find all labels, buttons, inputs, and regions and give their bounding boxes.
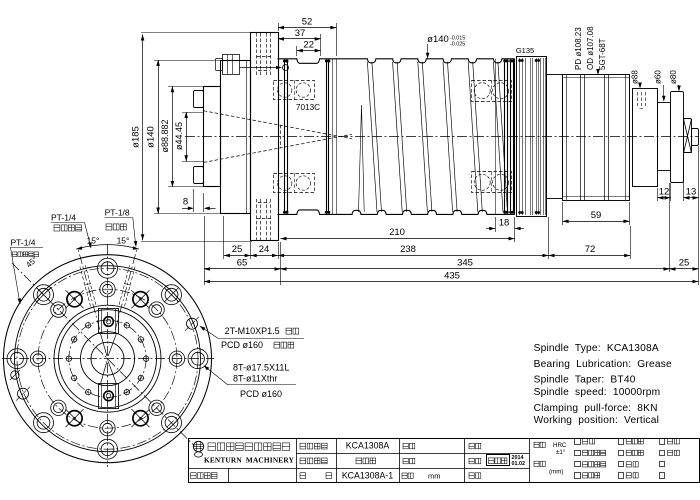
- grease fitting leader: [240, 65, 289, 71]
- cell 零件編號: [191, 473, 218, 479]
- front view 45 deg centerline: [12, 263, 195, 447]
- G135 clamping ring: [517, 57, 547, 217]
- 8T-ø11 through holes: [30, 282, 184, 436]
- svg-text:ø80: ø80: [669, 70, 678, 84]
- front flange outer circle ø185: [4, 255, 212, 463]
- svg-text:PT-1/4: PT-1/4: [11, 237, 36, 247]
- PCD 124 bolt circle: [38, 289, 177, 428]
- label 8T-11: [204, 365, 297, 385]
- shaft step ø88: [633, 89, 658, 187]
- bottom slot wedge: [101, 361, 117, 384]
- small bolt holes PCD 68: [65, 322, 149, 396]
- svg-text:(mm): (mm): [549, 469, 563, 476]
- value 外觀圖: [356, 458, 376, 464]
- company name CJK: [208, 443, 290, 451]
- svg-text:Working position: Vertical: Working position: Vertical: [534, 415, 659, 426]
- flange oil port (hidden, bottom): [257, 198, 272, 241]
- kenturn logo: [193, 441, 203, 457]
- svg-text:435: 435: [444, 271, 460, 282]
- label ø80: [669, 70, 681, 92]
- svg-text:2T-M10XP1.5: 2T-M10XP1.5: [225, 326, 280, 336]
- spec text block: [534, 343, 672, 426]
- o-ring seal C: [503, 60, 508, 214]
- svg-text:8: 8: [183, 197, 188, 208]
- svg-text:7013C: 7013C: [296, 103, 320, 112]
- dim 13: [684, 155, 699, 201]
- rear bearing pair (top): [472, 80, 512, 102]
- svg-text:Spindle speed: 10000rpm: Spindle speed: 10000rpm: [534, 387, 661, 398]
- svg-text:HRC: HRC: [553, 442, 567, 449]
- belt pulley 5GT-68T: [563, 74, 630, 201]
- cell 材質: [469, 473, 481, 479]
- cell 設計: [403, 458, 415, 464]
- svg-text:OD ø107.08: OD ø107.08: [586, 26, 595, 70]
- title block frame: [188, 439, 700, 483]
- svg-text:ø140: ø140: [146, 126, 157, 148]
- heat treatment checkboxes: [575, 439, 680, 479]
- dim 18: [486, 217, 524, 232]
- spindle axis centerline: [185, 136, 699, 138]
- front circle ø87: [59, 310, 157, 408]
- front circle ø165: [15, 266, 201, 452]
- bottom keyway slot: [99, 384, 119, 409]
- dim ø140: [146, 60, 223, 214]
- svg-text:59: 59: [591, 210, 602, 221]
- svg-text:01.02: 01.02: [512, 461, 526, 467]
- cell 單位mm: [402, 471, 441, 480]
- svg-text:Bearing Lubrication: Grease: Bearing Lubrication: Grease: [534, 359, 672, 370]
- label PT-1/4 left: [10, 237, 43, 304]
- cell 核准: [403, 443, 415, 449]
- dim 210: [281, 217, 515, 242]
- dim 435: [204, 146, 699, 285]
- BT40 taper bore (hidden): [204, 111, 352, 163]
- svg-text:ø88: ø88: [631, 70, 640, 84]
- rear boss (ø88.882): [194, 87, 221, 187]
- label PCD160 bottom: [240, 389, 282, 399]
- svg-text:18: 18: [499, 218, 510, 229]
- 8T-ø17.5 counterbore holes: [7, 258, 208, 459]
- svg-text:72: 72: [585, 244, 596, 255]
- end tab: [692, 129, 699, 146]
- front bore circle: [91, 342, 124, 375]
- svg-text:mm: mm: [428, 471, 441, 480]
- svg-text:ø88.882: ø88.882: [160, 119, 170, 152]
- shaft neck ø60: [658, 103, 671, 171]
- svg-text:PCD ø160: PCD ø160: [240, 389, 282, 399]
- svg-text:8T-ø11Xthr: 8T-ø11Xthr: [233, 374, 277, 384]
- svg-text:ø60: ø60: [654, 70, 663, 84]
- svg-text:KENTURN MACHINERY: KENTURN MACHINERY: [204, 456, 295, 465]
- stamp box: [487, 455, 510, 466]
- cell 審核: [469, 443, 481, 449]
- spacer ring: [547, 75, 563, 199]
- svg-text:ø44.45: ø44.45: [174, 122, 184, 150]
- svg-text:52: 52: [302, 16, 313, 27]
- top slot wedge: [101, 334, 117, 357]
- o-ring seal A: [283, 60, 288, 214]
- o-ring seal B: [325, 60, 330, 214]
- svg-text:25: 25: [679, 258, 690, 269]
- top keyway slot: [99, 309, 119, 334]
- label 2T-M10: [200, 326, 305, 339]
- svg-text:8T-ø17.5X11L: 8T-ø17.5X11L: [233, 363, 289, 373]
- spindle barrel (ø140 body): [278, 59, 515, 215]
- value KCA1308A-1: [342, 470, 393, 480]
- cell 深度mm: [534, 461, 563, 475]
- svg-text:210: 210: [389, 227, 405, 238]
- svg-text:Clamping pull-force: 8KN: Clamping pull-force: 8KN: [534, 403, 658, 414]
- rear bearing pair (bottom): [472, 172, 512, 194]
- dim 52: [278, 16, 337, 56]
- svg-text:238: 238: [400, 244, 416, 255]
- label PT-1/4 top: [51, 213, 92, 249]
- PCD 160 bolt circle: [17, 268, 198, 449]
- 2T-M10 through holes PCD160: [16, 317, 199, 401]
- PT port passages (hidden): [78, 249, 137, 330]
- front view horizontal centerline: [2, 358, 214, 360]
- svg-text:ø185: ø185: [131, 126, 142, 148]
- ring oil port PT-1/4: [10, 370, 20, 380]
- dim 12: [658, 183, 671, 201]
- svg-text:PD ø108.23: PD ø108.23: [574, 27, 583, 70]
- rear bearing cap (ø140): [221, 60, 251, 214]
- cell 製品型式: [300, 443, 327, 449]
- cell 零件名稱: [300, 458, 327, 464]
- value KCA1308A: [346, 441, 390, 451]
- svg-text:345: 345: [457, 258, 473, 269]
- label ø88: [631, 70, 642, 89]
- PCD 68 bolt circle: [69, 320, 146, 397]
- mounting flange (ø185): [251, 33, 279, 241]
- o-ring seal D: [509, 60, 514, 214]
- svg-text:±1°: ±1°: [556, 449, 566, 456]
- svg-text:5GT-68T: 5GT-68T: [598, 38, 607, 70]
- grease fitting: [216, 55, 240, 75]
- shaft disc ø80: [671, 92, 684, 183]
- svg-text:-0.025: -0.025: [450, 42, 465, 48]
- dim ø44.45: [174, 112, 204, 162]
- label PT-1/8: [105, 208, 138, 247]
- svg-text:12: 12: [659, 187, 670, 198]
- front bearing pair (bottom): [274, 173, 315, 193]
- keyed end with cross: [684, 119, 692, 154]
- label G135: [516, 46, 534, 55]
- dim 8: [182, 189, 216, 212]
- 2T-M10 tapped holes: [66, 290, 150, 427]
- svg-text:15°: 15°: [117, 236, 130, 246]
- svg-text:24: 24: [259, 244, 270, 255]
- labels PD OD 5GT: [574, 26, 607, 75]
- svg-text:65: 65: [237, 258, 248, 269]
- svg-text:PT-1/4: PT-1/4: [51, 213, 76, 223]
- helical cooling grooves: [359, 62, 508, 212]
- bearing label 7013C: [296, 103, 320, 112]
- flange oil port (hidden, top): [257, 33, 272, 76]
- dim ø185: [131, 33, 253, 242]
- label ø60: [654, 70, 666, 102]
- date 2014 01.02: [512, 455, 526, 467]
- dim 65 345 25: [204, 183, 699, 285]
- svg-text:13: 13: [686, 187, 697, 198]
- front circle ø48: [81, 332, 135, 386]
- dim 25 24 238 72: [224, 216, 631, 259]
- label PCD160 top: [221, 340, 294, 350]
- cell 硬度HRC: [534, 442, 567, 456]
- dim ø88.882: [160, 86, 205, 187]
- svg-text:Spindle Taper: BT40: Spindle Taper: BT40: [534, 375, 636, 386]
- svg-text:ø140: ø140: [427, 34, 449, 45]
- dim 22: [297, 40, 321, 57]
- svg-text:22: 22: [303, 40, 314, 51]
- front circle ø95: [54, 305, 161, 412]
- svg-text:PCD ø160: PCD ø160: [221, 340, 263, 350]
- company name EN: [204, 456, 295, 465]
- front view vertical centerline: [107, 244, 109, 467]
- svg-text:PT-1/8: PT-1/8: [105, 208, 130, 218]
- dim 37: [278, 28, 321, 56]
- svg-text:KCA1308A: KCA1308A: [346, 441, 390, 451]
- svg-text:Spindle Type: KCA1308A: Spindle Type: KCA1308A: [534, 343, 659, 354]
- dim 59: [563, 202, 630, 225]
- 15 deg angle dim: [76, 236, 139, 250]
- svg-text:25: 25: [232, 244, 243, 255]
- cell 圖號: [300, 473, 332, 479]
- dim ø140 tolerance: [426, 34, 465, 59]
- cell 製圖: [469, 458, 481, 464]
- svg-text:KCA1308A-1: KCA1308A-1: [342, 470, 393, 480]
- svg-text:37: 37: [295, 28, 306, 39]
- front bearing pair (top): [274, 80, 315, 100]
- svg-text:G135: G135: [516, 46, 534, 55]
- label 8T-17.5: [233, 363, 289, 373]
